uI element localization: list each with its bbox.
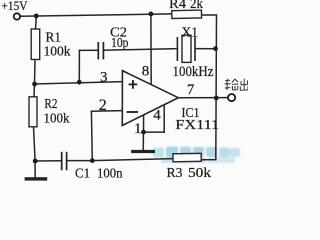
node X1 right bbox=[213, 46, 218, 51]
op-amp + input mark bbox=[129, 80, 138, 89]
terminal output bbox=[228, 94, 235, 101]
op-amp - input mark bbox=[127, 111, 138, 113]
svg-text:R2: R2 bbox=[44, 97, 57, 112]
svg-text:R1: R1 bbox=[46, 31, 62, 46]
wire: X1 right to right column bbox=[196, 48, 217, 50]
svg-text:100k: 100k bbox=[44, 45, 71, 60]
label output (Chinese "shu chu") bbox=[225, 79, 248, 91]
wire: R4 right + right column down to R3 bbox=[201, 15, 216, 160]
wire: pin1-pin4 link bbox=[144, 131, 165, 133]
wire: R1 bottom to junction bbox=[34, 60, 37, 85]
node C2 riser bbox=[77, 80, 82, 85]
svg-text:4: 4 bbox=[153, 108, 161, 124]
glyph shu: right part yu bbox=[232, 79, 238, 90]
capacitor C1 bbox=[62, 152, 67, 171]
paper background bbox=[0, 0, 248, 181]
wire: pin 8 bbox=[150, 14, 152, 85]
svg-text:R4: R4 bbox=[169, 0, 186, 12]
node R2/C1/gnd bbox=[33, 159, 38, 164]
ground (left, R2/C1) bbox=[25, 177, 48, 180]
op-amp IC1 triangle bbox=[122, 71, 178, 126]
wire: junction to R2 top bbox=[33, 84, 36, 97]
wire: C2 left stub bbox=[80, 49, 99, 51]
ground (centre, pins 1,4) bbox=[131, 150, 155, 153]
svg-text:100n: 100n bbox=[97, 167, 123, 182]
svg-text:2k: 2k bbox=[190, 0, 203, 12]
wire: pin 1 drop bbox=[143, 115, 145, 132]
node pin2/C1/R3 bbox=[90, 158, 95, 163]
svg-text:8: 8 bbox=[142, 64, 150, 80]
node pin1/gnd bbox=[141, 130, 146, 135]
svg-text:10p: 10p bbox=[111, 36, 129, 51]
svg-text:7: 7 bbox=[187, 82, 194, 98]
svg-text:3: 3 bbox=[100, 70, 108, 86]
terminal +15V bbox=[14, 13, 20, 19]
node R1/R2/pin3 bbox=[32, 82, 37, 87]
svg-text:FX111: FX111 bbox=[175, 118, 219, 133]
capacitor C2 bbox=[98, 42, 103, 59]
wire: R2 bottom to ground junction bbox=[34, 127, 36, 161]
svg-text:+15V: +15V bbox=[2, 0, 28, 13]
resistor R3 bbox=[173, 153, 201, 161]
node rail/R1 bbox=[34, 14, 39, 19]
glyph chu bbox=[240, 79, 248, 91]
wire: node to pin 3 bbox=[35, 82, 123, 84]
wire: C1 right to pin2 junction bbox=[67, 160, 92, 162]
svg-text:1: 1 bbox=[134, 121, 142, 137]
node rail/pin8 bbox=[149, 12, 154, 17]
wire: output pin 7 bbox=[178, 97, 228, 99]
svg-text:R3: R3 bbox=[167, 166, 183, 181]
wire: pin 2 riser bbox=[90, 111, 93, 160]
resistor R2 bbox=[29, 97, 37, 127]
wire: pin 4 drop bbox=[163, 105, 165, 132]
svg-text:2: 2 bbox=[99, 97, 107, 114]
svg-text:100k: 100k bbox=[44, 111, 70, 126]
wire: ground drop centre bbox=[142, 132, 144, 150]
svg-text:X1: X1 bbox=[182, 26, 199, 41]
wire: C2 riser down to +input net bbox=[78, 50, 80, 82]
resistor R4 bbox=[172, 10, 202, 18]
wire: rail to R1 top bbox=[35, 16, 38, 29]
wire: +15V rail bbox=[20, 14, 171, 16]
wire: C2 right to X1 left bbox=[104, 49, 178, 51]
node output bbox=[214, 96, 219, 101]
wire: ground drop left bbox=[34, 161, 36, 178]
wire: junction to C1 left bbox=[35, 160, 61, 162]
svg-text:100kHz: 100kHz bbox=[173, 64, 214, 80]
svg-text:50k: 50k bbox=[188, 166, 211, 181]
crystal X1 bbox=[177, 35, 195, 62]
svg-text:C1: C1 bbox=[75, 167, 90, 182]
glyph shu: radical che bbox=[225, 79, 231, 91]
wire: pin 2 horizontal bbox=[91, 110, 122, 113]
wire: pin2 junction to R3 left bbox=[92, 159, 173, 161]
resistor R1 bbox=[31, 29, 40, 60]
